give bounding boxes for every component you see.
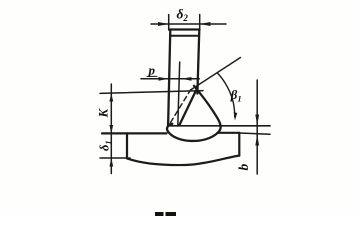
svg-text:b: b: [236, 164, 251, 171]
svg-text:p: p: [148, 63, 156, 78]
svg-text:K: K: [96, 108, 111, 119]
